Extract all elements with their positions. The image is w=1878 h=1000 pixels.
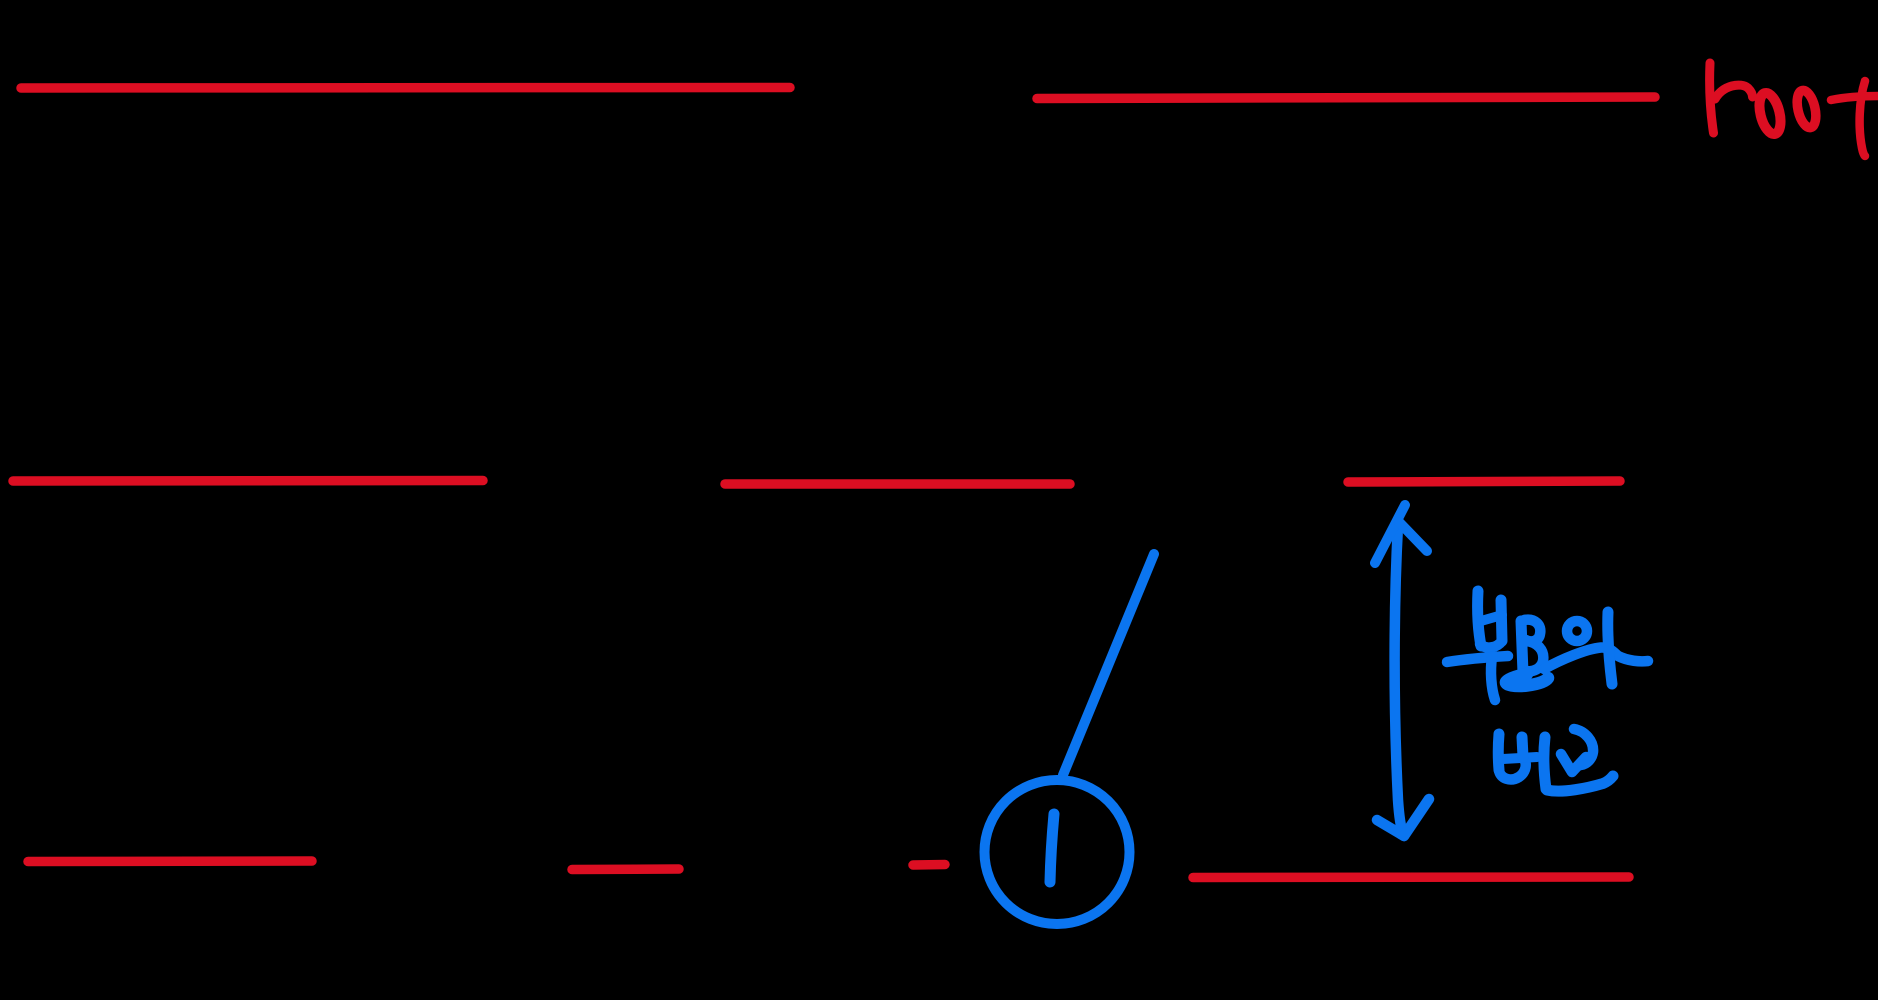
hangul bu bieup right vertical — [1501, 600, 1502, 641]
label root letter r — [1710, 63, 1753, 133]
hangul mo bottom bowl — [1526, 641, 1543, 671]
hangul bu bieup mid bar — [1481, 615, 1502, 621]
hangul gyo yo zigzag — [1561, 754, 1586, 772]
hangul bu u stem — [1491, 657, 1495, 700]
hangul bi bieup bowl — [1499, 761, 1526, 779]
label root letter o2 — [1794, 89, 1819, 130]
arrow bottom barb right — [1404, 799, 1429, 836]
hangul bi bieup inner vertical — [1522, 737, 1523, 757]
hangul bi bieup crossbar — [1503, 757, 1537, 759]
label root letter t — [1831, 81, 1878, 156]
level line mid-left — [13, 476, 483, 486]
arrow bottom barb left — [1377, 820, 1404, 836]
hangul gyo giyeok arc — [1574, 729, 1593, 765]
arrow top barb right — [1399, 522, 1427, 551]
pointer diagonal to node — [1063, 554, 1154, 775]
level line bottom-small — [572, 864, 679, 874]
level line bottom-left — [28, 856, 312, 866]
hangul mo top bowl — [1524, 620, 1540, 642]
hangul mo left vertical — [1521, 621, 1523, 673]
level dash bottom — [913, 860, 945, 870]
hangul bu bieup left vertical — [1478, 591, 1481, 646]
hangul gyo bottom bar — [1547, 776, 1613, 791]
hangul ui eu bar — [1544, 647, 1648, 669]
label root letter o1 — [1756, 91, 1785, 136]
hangul ui ieung loop — [1567, 621, 1587, 641]
level line top-right — [1037, 97, 1655, 99]
node circle — [985, 780, 1130, 924]
hangul bi bieup left vertical — [1493, 734, 1505, 770]
hangul mo o bar loop — [1506, 674, 1548, 686]
hangul bi i vertical — [1544, 737, 1546, 789]
hangul bu u bar — [1447, 656, 1508, 662]
level line bottom-right — [1193, 872, 1629, 882]
level line top-left — [21, 83, 790, 93]
hangul bu bieup bottom bowl — [1480, 641, 1502, 648]
hangul ui i vertical — [1608, 612, 1612, 684]
level line mid-right — [1348, 481, 1620, 482]
level line mid-center — [725, 479, 1070, 489]
node tick 1 — [1050, 814, 1054, 882]
arrow shaft — [1395, 525, 1403, 833]
arrow top barb left — [1375, 505, 1405, 563]
